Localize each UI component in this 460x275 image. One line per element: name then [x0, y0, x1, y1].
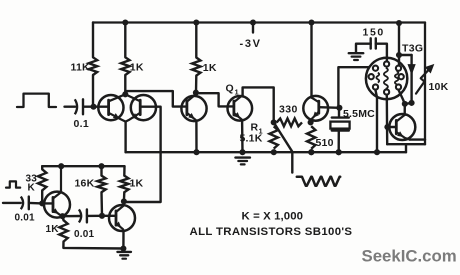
svg-text:0.1: 0.1: [74, 118, 90, 130]
wire 1K(emitter) top lead: [63, 216, 64, 220]
svg-text:5.1K: 5.1K: [240, 133, 263, 145]
wire emitter to C0.01 coupling: [63, 215, 80, 218]
wire Q1 emitter to ground rail: [241, 122, 244, 153]
wire collector node to tube pin: [399, 91, 405, 104]
node 510 bottom junction: [308, 149, 314, 155]
transistor Q-A (left of pair): [98, 95, 123, 120]
node T3G slug bottom junction: [409, 100, 415, 106]
svg-text:0.01: 0.01: [74, 229, 95, 240]
transistor Q1: [228, 96, 253, 121]
wire C0.01 to Q6 base node: [87, 215, 102, 217]
svg-text:K = X 1,000: K = X 1,000: [242, 211, 304, 223]
svg-text:5.5MC: 5.5MC: [343, 108, 375, 120]
node 330-R1 junction: [271, 119, 277, 125]
rheostat 10K arrow: [416, 70, 428, 93]
wire Q4 emitter to right rail: [410, 138, 425, 140]
resistor R1 5.1K: [270, 126, 278, 148]
node 330-emitter-510 junction: [308, 119, 314, 125]
node stage2 collector junction: [193, 90, 199, 96]
wire pair node to Q2 collector line: [125, 91, 186, 107]
svg-text:K: K: [28, 183, 36, 194]
wire sawtooth stub: [291, 152, 293, 172]
wire Q3 base to crystal node: [319, 106, 340, 109]
svg-text:T3G: T3G: [402, 43, 423, 55]
svg-text:1K: 1K: [203, 62, 217, 74]
wire lower rail corner to 1K: [123, 166, 126, 175]
wire 16K bottom lead: [100, 192, 103, 216]
wire input to C 0.1: [65, 105, 76, 107]
wire lower supply rail: [42, 165, 124, 167]
wire slug bottom to collector node: [405, 103, 412, 104]
node junction dots on top rail: [122, 19, 128, 25]
wire 16K top lead: [100, 166, 102, 175]
wire Q4 collector up: [404, 104, 406, 115]
crystal X1 5.5MC: [338, 110, 340, 117]
resistor R 1K (pair collector): [121, 57, 129, 75]
wire 1K(pair) top lead: [124, 23, 126, 58]
node -3V supply stub: [252, 23, 254, 33]
node crystal junction: [336, 105, 342, 111]
wire 11K top lead: [92, 23, 94, 58]
wire crystal node up-left to tube: [338, 67, 369, 108]
wire tube bottom-left pin to ground rail: [376, 90, 378, 152]
wire Q5 base lead: [42, 202, 53, 204]
node T3G top junction: [396, 52, 402, 58]
wire bottom ground rail: [126, 151, 406, 153]
capacitor C 0.01 (coupling): [79, 209, 81, 222]
wire base line bottom corner: [387, 143, 425, 145]
transistor Q5 (lower left): [44, 192, 70, 218]
transistor Q2 (stage 2): [181, 96, 206, 121]
wire C 0.1 to base node: [83, 105, 93, 107]
svg-text:SeekIC.com: SeekIC.com: [362, 247, 457, 266]
wire 33K bottom lead: [41, 190, 43, 203]
wire rail to tube right pin: [398, 23, 400, 65]
svg-text:0.01: 0.01: [15, 213, 36, 224]
transistor Q3 (blocking osc): [303, 96, 328, 121]
wire 1K(stage2) bottom lead: [195, 76, 198, 93]
resistor R 33K: [38, 169, 46, 190]
resistor R 16K: [97, 176, 105, 193]
svg-text:330: 330: [279, 104, 298, 116]
node Q6 collector junction: [121, 198, 127, 204]
svg-text:1K: 1K: [130, 178, 144, 190]
resistor R 510: [307, 126, 315, 149]
waveform input pulse symbol (top): [17, 94, 56, 107]
node Q4 base junction: [384, 124, 390, 130]
capacitor C 150: [370, 38, 372, 48]
node dots on bottom rail: [193, 149, 199, 155]
wire Q6 base lead: [102, 215, 116, 217]
svg-text:1K: 1K: [130, 62, 144, 74]
T3G slug arrow (down): [410, 55, 412, 103]
transistor Q-B (right of pair): [131, 95, 156, 120]
resistor R 11K: [89, 57, 97, 75]
wire top -3V supply rail: [93, 21, 425, 23]
transformer T3G can (top view): [366, 58, 407, 99]
node dots on lower rail: [58, 163, 64, 169]
wire C150 right to tube top pin: [376, 44, 387, 61]
node Q6 base junction: [99, 213, 105, 219]
transistor Q6 (lower right): [109, 205, 135, 231]
svg-text:16K: 16K: [75, 178, 95, 190]
node lower base junction: [39, 200, 45, 206]
svg-text:150: 150: [363, 27, 385, 39]
wire 1K(stage2) top lead: [195, 23, 197, 58]
wire right rail drop to 10K: [424, 23, 426, 145]
transistor Q4 (output): [389, 114, 415, 140]
wire T3G slug stub: [399, 54, 412, 56]
waveform sawtooth output symbol: [297, 177, 340, 186]
wire C0.01 to base node: [29, 202, 42, 205]
svg-text:ALL TRANSISTORS SB100'S: ALL TRANSISTORS SB100'S: [190, 226, 353, 238]
wire stage3 collector from rail: [310, 23, 312, 98]
ground (main, under Q1): [235, 156, 250, 158]
svg-text:Q: Q: [226, 83, 234, 95]
svg-text:510: 510: [316, 137, 334, 149]
node crystal bottom junction: [336, 149, 342, 155]
wire tube bottom pin down (Q4 base line): [386, 95, 389, 144]
node lower ground junction: [120, 245, 126, 251]
waveform input pulse symbol (lower): [6, 181, 20, 187]
svg-text:10K: 10K: [429, 81, 449, 93]
resistor R 330: [277, 119, 302, 127]
wire sawtooth tap diagonal: [274, 122, 293, 152]
ground (150 cap): [349, 52, 364, 54]
node Q5 emitter junction: [59, 213, 65, 219]
wire 33K top lead: [41, 166, 43, 169]
node Q4 collector junction: [402, 101, 408, 107]
node input base junction: [90, 104, 96, 110]
svg-text:1K: 1K: [46, 224, 60, 235]
svg-text:-3V: -3V: [240, 38, 262, 50]
wire rail stub up: [405, 144, 407, 152]
wire 1K bottom lead: [123, 192, 126, 201]
wire Q-B base to lower flipflop: [124, 107, 161, 202]
wire 11K bottom lead: [92, 75, 94, 107]
wire lower input: [3, 202, 21, 204]
wire C150 left to ground: [356, 44, 371, 52]
wire lower bottom rail: [63, 242, 123, 249]
resistor R 1K (stage2 collector): [192, 58, 200, 76]
wire Q6 emitter down: [122, 231, 124, 249]
wire Q4 base lead: [387, 126, 396, 128]
wire pair emitters down to ground rail: [124, 122, 126, 153]
wire stage2 collector to Q1 base: [197, 93, 234, 106]
wire 1K(pair) bottom lead: [124, 75, 126, 94]
wire Q2 emitter to ground rail: [195, 122, 198, 152]
wire Q-A base lead: [94, 105, 109, 107]
svg-text:11K: 11K: [71, 62, 90, 74]
node pair collector junction: [122, 91, 128, 97]
capacitor C 0.01 (input): [21, 197, 23, 210]
resistor R 1K (Q6 collector): [120, 176, 128, 193]
ground (lower block): [117, 251, 131, 253]
wire Q1 collector up and right to 330 node: [243, 87, 274, 122]
capacitor C 0.1: [75, 99, 77, 114]
resistor R 1K (Q5 emitter): [59, 220, 67, 241]
